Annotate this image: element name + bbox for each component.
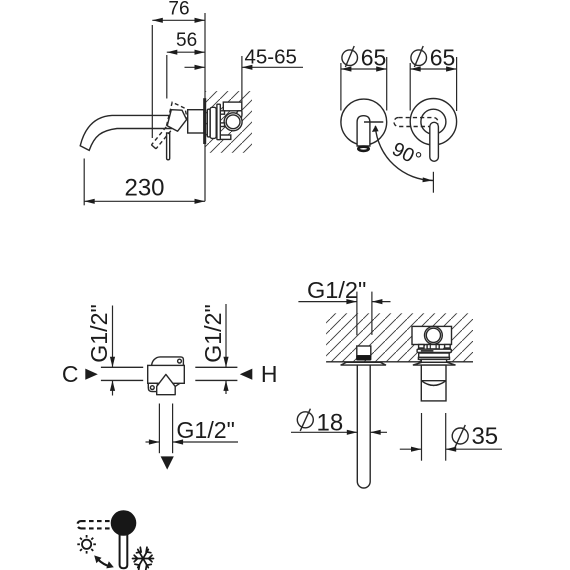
outlet extension lines — [158, 404, 160, 454]
cold inlet lines — [101, 366, 143, 368]
dimension dia 65 left — [341, 68, 387, 70]
flange bar 1 — [417, 349, 451, 352]
svg-text:65: 65 — [361, 45, 387, 71]
chrome sleeve cylinder — [421, 365, 446, 401]
spout union nut — [357, 346, 371, 356]
neck through wall — [421, 359, 446, 362]
dashed handle horizontal position — [394, 118, 438, 127]
housing bottom foot — [220, 135, 231, 139]
svg-text:230: 230 — [124, 175, 164, 202]
cold flow triangle — [85, 369, 98, 380]
concealed valve housing in wall — [207, 102, 242, 140]
svg-text:C: C — [62, 361, 79, 387]
svg-text:18: 18 — [317, 409, 344, 436]
spout escutcheon strip — [341, 362, 386, 365]
flange bar 3 — [418, 357, 449, 359]
dimension 230 — [84, 200, 205, 202]
spout connection extension lines — [356, 292, 358, 336]
housing right shoulder — [236, 111, 242, 119]
G1/2 dimension top view — [298, 301, 357, 303]
dia 35 dimension — [400, 448, 422, 450]
dia 35 extension lines — [421, 413, 423, 461]
sleeve edge line — [421, 380, 446, 382]
handle escutcheon inner circle — [421, 109, 446, 134]
svg-text:G1/2": G1/2" — [200, 304, 226, 363]
spout tube top view — [357, 365, 370, 488]
extension line in-wall depth — [241, 56, 243, 102]
dimension 76 — [152, 19, 205, 21]
extension line handle front — [166, 55, 168, 99]
handle lever front vertical — [430, 122, 439, 161]
dashed rotated handle outline — [167, 102, 188, 126]
sleeve bottom curve — [421, 381, 446, 386]
svg-text:H: H — [261, 361, 278, 387]
svg-text:76: 76 — [168, 0, 189, 20]
bottom-left tab — [148, 383, 157, 391]
svg-text:G1/2": G1/2" — [307, 277, 366, 303]
stem right tab — [445, 345, 451, 349]
lever stem — [120, 531, 128, 568]
screw top — [178, 359, 182, 363]
outlet flow triangle down — [161, 456, 174, 469]
svg-text:35: 35 — [471, 423, 498, 450]
spout side profile — [80, 115, 172, 150]
dimension dia 65 right — [410, 68, 456, 70]
svg-text:65: 65 — [430, 45, 456, 71]
svg-text:56: 56 — [176, 30, 197, 51]
hot flow triangle — [240, 369, 253, 380]
dashed lever rotated down position — [151, 127, 166, 145]
dia 18 dimension — [291, 431, 357, 433]
spout escutcheon circle — [341, 99, 387, 145]
lever rod pointing down — [167, 133, 170, 160]
trim ring — [207, 109, 210, 137]
wall hatch band — [326, 313, 473, 362]
valve escutcheon strip — [413, 362, 456, 365]
knob ball — [111, 510, 137, 536]
connector tab lower — [220, 123, 225, 127]
lever end target line — [432, 172, 434, 193]
housing top box — [223, 102, 242, 111]
handle escutcheon outer circle — [410, 99, 456, 145]
svg-text:G1/2": G1/2" — [176, 417, 235, 443]
flange bar 2 — [419, 353, 450, 357]
inner detail arc — [428, 384, 440, 385]
outlet G1/2 dimension — [146, 441, 160, 443]
stem left tab — [419, 345, 424, 349]
chamfer line — [175, 383, 180, 386]
svg-text:G1/2": G1/2" — [86, 304, 112, 363]
trim sleeve outer — [210, 107, 216, 138]
connector tab upper — [220, 111, 225, 114]
dashed lever horizontal position — [77, 521, 112, 528]
G1/2 dim right — [225, 304, 227, 367]
outlet boss house shape — [157, 374, 176, 394]
backplate — [217, 104, 220, 140]
lever pointer line — [364, 121, 383, 123]
spout nozzle tip — [358, 147, 368, 151]
handle body — [167, 110, 186, 132]
spout seal flange — [356, 356, 371, 361]
G1/2 dim left — [112, 306, 114, 368]
svg-text:45-65: 45-65 — [245, 45, 297, 68]
snowflake symbol cold — [133, 547, 154, 570]
screw bottom — [150, 386, 154, 390]
valve main body — [148, 365, 185, 383]
stem center — [427, 345, 439, 349]
mixer body cylinder — [188, 110, 204, 133]
cartridge circle inner — [426, 328, 440, 342]
cartridge circle outer — [425, 326, 443, 344]
wall bottom edge — [326, 361, 421, 363]
rotate arrow hot-cold — [98, 559, 111, 567]
wall escutcheon plate edge-on — [203, 98, 206, 144]
extension line spout reach — [151, 25, 153, 138]
hot inlet lines — [195, 366, 237, 368]
valve housing box top view — [412, 326, 452, 344]
valve cartridge circle inner — [226, 115, 240, 129]
spout tube front — [357, 116, 370, 146]
extension line spout tip — [83, 159, 85, 206]
sun symbol hot — [77, 535, 96, 554]
valve top plate — [152, 357, 184, 366]
wall hatch section — [205, 91, 252, 153]
rotation arc 90deg — [375, 126, 433, 180]
dimension 45-65 — [185, 66, 206, 68]
dimension 56 — [167, 51, 205, 53]
flange bar 1 dark inset — [421, 350, 434, 352]
valve cartridge circle outer — [224, 113, 242, 131]
wall face line — [204, 13, 206, 201]
